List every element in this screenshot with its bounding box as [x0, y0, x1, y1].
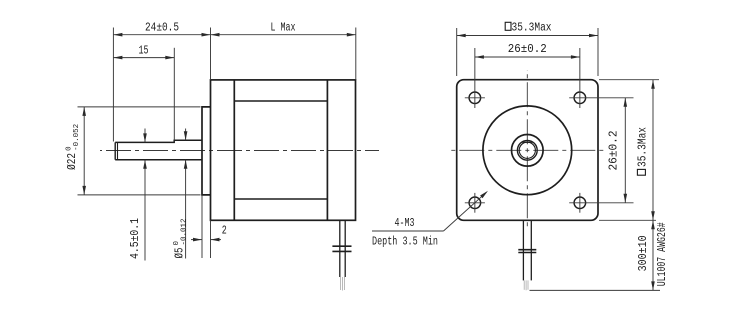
- svg-text:4-M3: 4-M3: [395, 217, 415, 230]
- side view centerline: [100, 150, 379, 152]
- dimension 26±0.2 vertical: [624, 98, 626, 203]
- svg-text:15: 15: [139, 45, 149, 58]
- motor body outline (side view): [211, 80, 356, 220]
- svg-text:300±10: 300±10: [637, 235, 650, 271]
- svg-text:35.3Max: 35.3Max: [512, 21, 552, 34]
- dimension □35.3Max vertical: [599, 79, 659, 81]
- pilot boss (side view): [202, 107, 211, 195]
- svg-text:4.5±0.1: 4.5±0.1: [129, 218, 142, 259]
- lead wires (side view): [339, 220, 341, 277]
- shaft flat chord: [522, 141, 533, 143]
- svg-text:Ø22: Ø22: [66, 153, 79, 170]
- dimension 24±0.5: [112, 28, 114, 142]
- shaft tip face: [114, 142, 116, 159]
- lead wires (front view): [522, 220, 524, 280]
- shaft circle Ø5: [517, 140, 537, 160]
- mounting hole bottom-right: [574, 197, 586, 209]
- bearing boss circle: [512, 135, 544, 167]
- dimension 4.5±0.1 shaft flat: [144, 129, 146, 143]
- mounting hole bottom-left: [469, 197, 481, 209]
- wire tie band (side view): [332, 245, 351, 247]
- svg-text:Ø5: Ø5: [174, 247, 187, 258]
- wire strands (side view): [340, 277, 342, 290]
- svg-text:-0.052: -0.052: [73, 124, 81, 151]
- motor body inner top line: [234, 100, 327, 102]
- dimension 2 boss thickness: [201, 195, 203, 258]
- dimension L Max: [210, 28, 212, 80]
- svg-text:UL1007 AWG26#: UL1007 AWG26#: [656, 222, 669, 286]
- dimension 26±0.2 horizontal: [474, 48, 476, 108]
- wire strands (front view): [523, 280, 525, 289]
- svg-text:26±0.2: 26±0.2: [608, 130, 621, 170]
- motor body left end-cap line: [233, 80, 235, 220]
- front view vertical centerline: [526, 70, 528, 229]
- mounting hole top-left: [469, 92, 481, 104]
- shaft flat inner circle: [519, 142, 535, 158]
- svg-text:24±0.5: 24±0.5: [145, 22, 179, 35]
- dimension 15: [173, 48, 175, 140]
- svg-text:-0.012: -0.012: [181, 219, 189, 246]
- mounting hole top-right: [574, 92, 586, 104]
- dimension 300±10 wire length: [530, 289, 661, 291]
- dimension Ø22 boss diameter: [78, 106, 201, 108]
- svg-text:L Max: L Max: [271, 21, 296, 34]
- svg-text:2: 2: [222, 225, 227, 238]
- shaft outline (side view): [115, 140, 202, 142]
- svg-text:26±0.2: 26±0.2: [508, 43, 547, 56]
- motor body right end-cap line: [326, 80, 328, 220]
- front view horizontal centerline: [447, 149, 606, 151]
- motor body inner bottom line: [234, 198, 327, 200]
- svg-text:Depth 3.5 Min: Depth 3.5 Min: [372, 236, 438, 249]
- wire tie band (front view): [518, 249, 536, 251]
- svg-text:35.3Max: 35.3Max: [636, 127, 649, 167]
- dimension □35.3Max horizontal: [456, 28, 458, 76]
- leader 4-M3 mounting holes: [372, 230, 444, 232]
- mounting flange square: [457, 80, 598, 221]
- pilot boss circle Ø22: [483, 106, 572, 195]
- shaft tip chamfer line: [117, 143, 119, 160]
- dimension Ø5 shaft diameter: [185, 129, 187, 141]
